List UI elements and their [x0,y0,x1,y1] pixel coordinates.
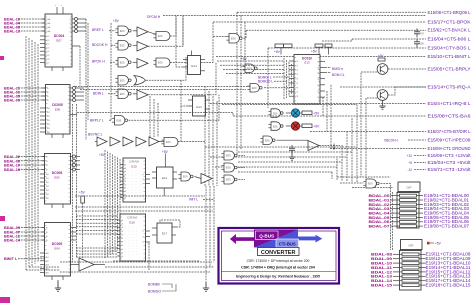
svg-text:E09: E09 [226,154,231,158]
resistor R2 [302,124,312,128]
wire top line BINIT y56.5 [216,56,426,58]
LED D2 red [291,122,299,130]
label CONVERTER [258,248,300,256]
svg-text:DIP: DIP [408,244,413,248]
svg-text:E17: E17 [162,232,168,236]
wire E09D output [239,155,246,157]
svg-text:E15/17+CT1-BPOK: E15/17+CT1-BPOK [428,20,471,25]
svg-text:E09: E09 [226,178,231,182]
svg-text:E15/09+CT-HPEC08: E15/09+CT-HPEC08 [428,138,472,143]
nand gate E09F [366,179,376,188]
nand gate E08A [229,34,239,44]
wire E08C to E02F [277,139,309,141]
delay chain buffer 5 [149,137,159,146]
flip-flop E14B [193,96,206,116]
buffer E02E [137,90,148,100]
wire vertical net x88 [87,23,89,120]
svg-text:E05: E05 [120,60,125,64]
svg-text:E06: E06 [273,124,278,128]
wire bus above title box [75,195,205,197]
svg-text:E08: E08 [265,138,270,142]
LED D1 blue [291,109,299,117]
wire vertical drop x176 [175,16,177,37]
wire bus y104.5 [222,104,357,106]
svg-text:E15/05+CT1-BRPLY: E15/05+CT1-BRPLY [428,67,471,72]
wire E08D output [239,167,246,169]
svg-text:E14: E14 [191,64,197,68]
svg-text:XBC09 H: XBC09 H [384,139,398,143]
IC E13 DC010 DMA controller [294,55,320,105]
connector J1 pin row 8 [400,225,417,228]
svg-text:BSYNC L: BSYNC L [88,132,103,136]
svg-text:E15/62+CT-BVACK L: E15/62+CT-BVACK L [428,28,472,33]
wire vertical drop x237 [236,12,238,155]
connector J2 pin row 1 [402,253,419,256]
svg-text:BDAL-14: BDAL-14 [4,239,21,243]
svg-text:BDAL-03: BDAL-03 [4,226,20,230]
ground bottom middle [205,282,207,288]
wire E08A output [244,30,247,38]
wire top line BVACK y30.2 [246,29,426,31]
svg-text:E09: E09 [368,182,373,186]
wire E13 left feed horizontals [217,60,284,62]
connector J2 pin row 7 [402,279,419,282]
nand gate E05B [118,41,128,51]
svg-text:BINIT L: BINIT L [4,257,18,261]
svg-text:E15/09+CT1 GROUND: E15/09+CT1 GROUND [428,146,471,151]
wire bottom horizontal bus [60,261,212,263]
IC pin tick marks [124,160,126,162]
wire E06 bottom stubs [51,134,53,138]
transistor Q1 [377,64,388,75]
wire delay chain in/out [95,141,97,143]
svg-text:E15/08+CT1-BRQ06 L: E15/08+CT1-BRQ06 L [428,10,472,15]
IC E05 DC005 transceiver [45,154,71,205]
svg-text:E08: E08 [247,66,252,70]
svg-text:470: 470 [420,32,425,36]
wire E09B output [264,87,288,89]
wire E07 bottom stubs [51,67,53,71]
nand gate E05E [118,89,128,99]
connector J2 pin row 4 [402,266,419,269]
connector J1 pin row 6 [400,216,417,219]
svg-text:BREF L: BREF L [92,28,104,32]
wire row D output [146,57,186,80]
wire pull-up down [82,203,84,262]
wire E09E output [239,179,246,181]
svg-text:E11: E11 [162,176,167,180]
wire vertical x149 [148,243,150,270]
wire GROUND net y148.5 [330,148,426,150]
wire vertical x181 [180,106,182,142]
svg-text:E09: E09 [183,175,188,179]
svg-text:E19/08+CT1-BDAL07: E19/08+CT1-BDAL07 [424,224,470,229]
label CTI-BUS [276,239,299,247]
connector J2 pin row 6 [402,275,419,278]
capacitor C1 [291,145,293,148]
nand gate E06A [156,32,170,41]
connector J1 pin row 7 [400,220,417,223]
connector J2 pin row 5 [402,271,419,274]
nand gate E06E LED driver [271,122,280,131]
svg-text:E08: E08 [116,118,121,122]
wire E07 XMIT pin [72,45,80,47]
resistor RP1 [275,44,284,48]
svg-text:E07: E07 [56,39,62,43]
svg-text:E10: E10 [131,165,137,169]
nand gate E08D [224,163,234,172]
svg-text:BDAL-10: BDAL-10 [4,164,20,168]
connector J1 header DIP [398,182,420,192]
wire E13 left feed verticals [283,58,285,100]
wire feed bundle to C/RAM blocks [104,150,106,258]
wire vertical x214 lower [213,186,215,262]
svg-text:C/RAM: C/RAM [129,160,139,164]
svg-text:BDIN L: BDIN L [93,92,104,96]
nand gate E05A [118,26,128,36]
svg-text:+5V: +5V [162,150,169,154]
wire E13 right pin drops [322,97,324,116]
svg-text:BOMGO: BOMGO [148,289,161,293]
IC E10 C/RAM [123,158,146,202]
wire row B output [148,16,183,47]
svg-text:E08: E08 [226,166,231,170]
svg-text:BDCOK H: BDCOK H [92,43,108,47]
nand gate E09C [181,172,190,181]
svg-text:+5: +5 [408,161,412,165]
wire IRQ-A line y87 [340,86,426,88]
svg-text:+5V: +5V [314,125,321,129]
svg-text:BRPLY L: BRPLY L [90,119,104,123]
wire fan into C/RAM E16 lower [76,247,117,249]
connector J1 pin row 4 [400,207,417,210]
svg-text:BDAL-15: BDAL-15 [371,283,393,288]
svg-text:INIT L: INIT L [189,198,198,202]
ground bottom left [57,282,59,288]
svg-text:100: 100 [420,42,425,46]
svg-text:BDMGO L: BDMGO L [258,80,273,84]
wire bus y131.5 [310,131,426,133]
svg-text:E06: E06 [166,140,171,144]
svg-text:BMGI e: BMGI e [332,67,343,71]
wire row C output [170,22,213,63]
svg-text:E15/4+CT1-IRQ-B L: E15/4+CT1-IRQ-B L [428,101,472,106]
wire vertical drop x245 [244,22,246,60]
wire E04 bottom stubs [51,276,53,280]
svg-text:BPOK H: BPOK H [92,60,105,64]
svg-text:Q-BUS: Q-BUS [259,234,274,239]
svg-text:E09: E09 [252,86,257,90]
svg-text:+5V: +5V [79,191,86,195]
svg-text:E15/10+CT1-BINIT L: E15/10+CT1-BINIT L [428,54,472,59]
svg-text:+5V: +5V [314,112,321,116]
wire vertical net x76.5 [76,104,78,258]
wire E09F output down [381,184,391,251]
svg-text:E16: E16 [129,221,135,225]
svg-text:CONVERTER: CONVERTER [261,250,296,256]
IC E04 DC005 transceiver [45,223,71,277]
svg-text:E06: E06 [55,108,61,112]
svg-text:+5V: +5V [311,50,318,54]
label Q-BUS [256,231,279,240]
transistor Q2 [377,90,388,101]
resistor RP3 [325,44,332,47]
nand gate E06D LED driver [271,109,280,118]
svg-text:Q: Q [317,97,319,99]
svg-text:CTI-BUS: CTI-BUS [279,241,296,246]
ground at C1 [291,151,293,157]
svg-text:BGM CL: BGM CL [332,73,345,77]
IC pin tick marks [46,16,48,18]
svg-text:E16/04+CT5-b06 L: E16/04+CT5-b06 L [428,37,472,42]
connector J1 pin row 3 [400,203,417,206]
svg-text:CSR: 174000 + DP interrupt: CSR: 174000 + DP interrupt at vector 200 [247,259,310,263]
wire top line DFCM y15.5 [163,15,426,17]
IC interior dot texture C/RAM E10 [127,170,129,198]
wire BRPLY output [129,95,220,121]
svg-text:E15/07+CT5-B7/DIR L: E15/07+CT5-B7/DIR L [428,129,472,134]
svg-text:Q: Q [317,91,319,93]
wire E06 enable pin [70,114,77,116]
wire fan into C/RAM E16 upper [76,215,117,217]
buffer E02G [201,174,212,184]
svg-text:E08: E08 [231,36,236,40]
svg-text:BDAL-07: BDAL-07 [369,224,390,229]
wire resistor stubs [280,48,282,55]
svg-text:DIP: DIP [406,186,411,190]
IC E07 DC004 protocol decoder [45,14,72,67]
svg-text:E06: E06 [273,111,278,115]
wire bus y116 [77,113,426,117]
wire LED D1 row [286,112,292,114]
buffer E02C [137,59,148,69]
svg-text:E05: E05 [120,92,125,96]
wire top line BRQ y12.3 [237,11,426,13]
svg-text:E13: E13 [304,61,310,65]
wire top line b06 y39 [352,38,426,40]
nand gate E05C [118,58,128,68]
svg-text:DFCM H: DFCM H [147,15,161,19]
IC pin tick marks [121,216,123,218]
ground at Q2 [382,100,384,106]
svg-text:+5V: +5V [378,54,383,58]
junction dot ground net [333,144,335,149]
connector J1 pin row 1 [400,194,417,197]
buffer E02F [308,141,319,151]
nand gate E09B [250,84,259,93]
resistor RP1B [284,44,293,48]
svg-text:E15/06+CT3 +12Volt: E15/06+CT3 +12Volt [428,153,472,158]
svg-text:E15/71+CT3 -12Volt: E15/71+CT3 -12Volt [428,167,472,172]
wire drop x268 [267,48,269,108]
svg-text:BDAL-09: BDAL-09 [4,99,20,103]
svg-text:E15/04+CTY-BOS L: E15/04+CTY-BOS L [428,46,472,51]
wire Q1 base [361,72,377,177]
wire staircase verticals left [204,86,206,186]
wire vertical to ground left [57,280,59,288]
wire E02F output [319,145,340,147]
IC pin tick marks [295,57,297,59]
wire into E09F [340,182,363,184]
connector J2 pin row 8 [402,284,419,287]
wire vertical net x86 [85,19,87,140]
wire HPEC line y140 [408,139,426,141]
svg-text:Engineering & Design by: Rein: Engineering & Design by: Reinhard Neubau… [236,275,320,279]
wire staircase horizontals [205,146,357,148]
svg-text:-12: -12 [407,168,412,172]
scan artifact magenta left edge small [0,56,4,60]
capacitor C3 [416,39,418,42]
resistor R3 [378,58,385,61]
svg-text:+5V: +5V [99,153,106,157]
svg-text:E15/08+CT5-BA6: E15/08+CT5-BA6 [428,114,472,119]
wire E07 top stubs [56,7,58,14]
nand gate E06F [164,138,178,147]
nand gate E06C [156,58,170,67]
svg-text:+5V: +5V [113,19,120,23]
svg-text:E14: E14 [196,105,202,109]
connector J2 header DIP [401,240,423,250]
wire row E output [148,63,216,95]
scan artifact magenta corner [0,297,10,303]
wire cap stubs [416,29,418,31]
wire long net y89.5 [80,89,246,91]
delay chain buffer 4 [136,137,146,146]
title box frame [219,228,340,284]
svg-text:+5V: +5V [435,242,442,246]
IC E17 register [157,223,172,243]
wire vertical x392.5 [392,192,394,250]
buffer E02B [137,42,148,52]
delay chain buffer 1 [97,137,107,146]
wire E06A output [170,16,176,37]
svg-text:Q: Q [317,78,319,80]
title separator line [221,270,337,272]
IC pin tick marks [46,87,48,89]
svg-text:+5V: +5V [241,57,248,61]
wire verticals x150 cluster [149,96,151,137]
nand gate E08B [245,64,254,73]
connector J1 pin row 5 [400,212,417,215]
svg-text:E05: E05 [120,78,125,82]
svg-text:E05: E05 [120,43,125,47]
wire E05 bottom stubs [51,204,53,208]
wire IRQ-B line y103.5 [210,103,426,105]
wire vertical drop x183 [182,16,184,47]
IC pin tick marks [45,225,47,227]
connector J2 pin row 2 [402,257,419,260]
svg-text:C/RAM: C/RAM [127,216,137,220]
wire vertical to ground middle [205,186,207,288]
power +5V tap between connectors [427,242,430,245]
wire left vertical bus [25,36,27,270]
wire chain output right [178,141,205,143]
svg-text:DC005: DC005 [52,171,63,175]
buffer E02H [79,258,94,271]
resistor R1 [302,111,312,115]
svg-text:DC005: DC005 [52,103,63,107]
svg-text:Q: Q [317,67,319,69]
nand gate E09D [224,151,234,160]
buffer E02A [137,27,148,37]
wire E09C to E02G [195,177,202,179]
banner triangle blue [254,230,298,248]
svg-text:E04: E04 [54,247,60,251]
wire E08A input [213,35,226,37]
svg-text:+5V: +5V [274,50,281,54]
wire top elbow y41 [322,39,352,41]
IC pin tick marks [45,156,47,158]
wire Q1 collector [388,68,426,70]
wire E14B link [181,80,188,106]
wire bottom-right elbow joins [337,176,391,178]
wire LED D2 row [286,125,292,127]
arrow left Q-BUS [230,234,255,244]
IC E06 DC005 transceiver [46,85,71,135]
wire long net y86.5 [75,86,250,88]
wire vertical net x72.5 [72,104,74,262]
arrow right CTI-BUS [298,235,322,243]
xor gate E11A [134,76,146,86]
svg-text:E15/14+CT5-IRQ-A: E15/14+CT5-IRQ-A [428,85,471,90]
capacitor C2 [416,29,418,32]
wire staircase verticals right [331,172,333,179]
wire E17 feedback loop [160,220,180,227]
banner rectangle purple [254,230,298,248]
svg-text:BDAL-13: BDAL-13 [4,30,20,34]
svg-text:E05: E05 [54,176,60,180]
IC interior dot texture C/RAM E16 [124,226,126,256]
svg-text:E19/18+CT1-BDAL15: E19/18+CT1-BDAL15 [426,283,472,288]
wire top line BPOK y22 [213,21,426,23]
svg-text:+12: +12 [407,154,413,158]
connector J2 pin row 3 [402,262,419,265]
wire vertical drop x241 [240,16,242,151]
svg-text:BOMB0: BOMB0 [148,282,160,286]
wire E14A clock from x176 [176,36,183,67]
nand gate E09E [224,175,234,184]
scan artifact magenta left edge [0,216,5,221]
wire bus to bottom bus elbows [26,269,60,271]
svg-text:E06: E06 [158,34,163,38]
resistor R4 pull-up [81,196,85,203]
delay chain buffer 3 [123,137,133,146]
connector J2 body [400,251,422,291]
resistor RP2 [315,44,323,47]
wire Q2 collector [388,87,426,95]
connector J1 body [397,193,419,229]
svg-text:BDAL-18: BDAL-18 [4,168,20,172]
IC E11 register [157,167,174,188]
wire top line BOS y48 [268,47,426,49]
svg-text:E06: E06 [158,61,163,65]
wire E02H in/out [70,264,79,266]
delay chain buffer 2 [110,137,120,146]
svg-text:CSR: 174004 + DRQ (interrupt: CSR: 174004 + DRQ (interrupt at vector 2… [241,266,315,270]
flip-flop E14A [188,56,201,75]
wire vertical x210 lower [209,186,211,267]
svg-text:DC004: DC004 [54,34,65,38]
nand gate E08F [115,116,125,126]
svg-text:E15/04+CT3 +5Volt: E15/04+CT3 +5Volt [428,160,472,165]
nand gate E08C [263,136,272,145]
connector J1 pin row 2 [400,199,417,202]
svg-text:E05: E05 [120,29,125,33]
svg-text:DC005: DC005 [52,242,63,246]
wire Q2 base [366,98,377,178]
nand gate E05D [118,76,128,86]
IC E16 C/RAM [120,214,146,261]
